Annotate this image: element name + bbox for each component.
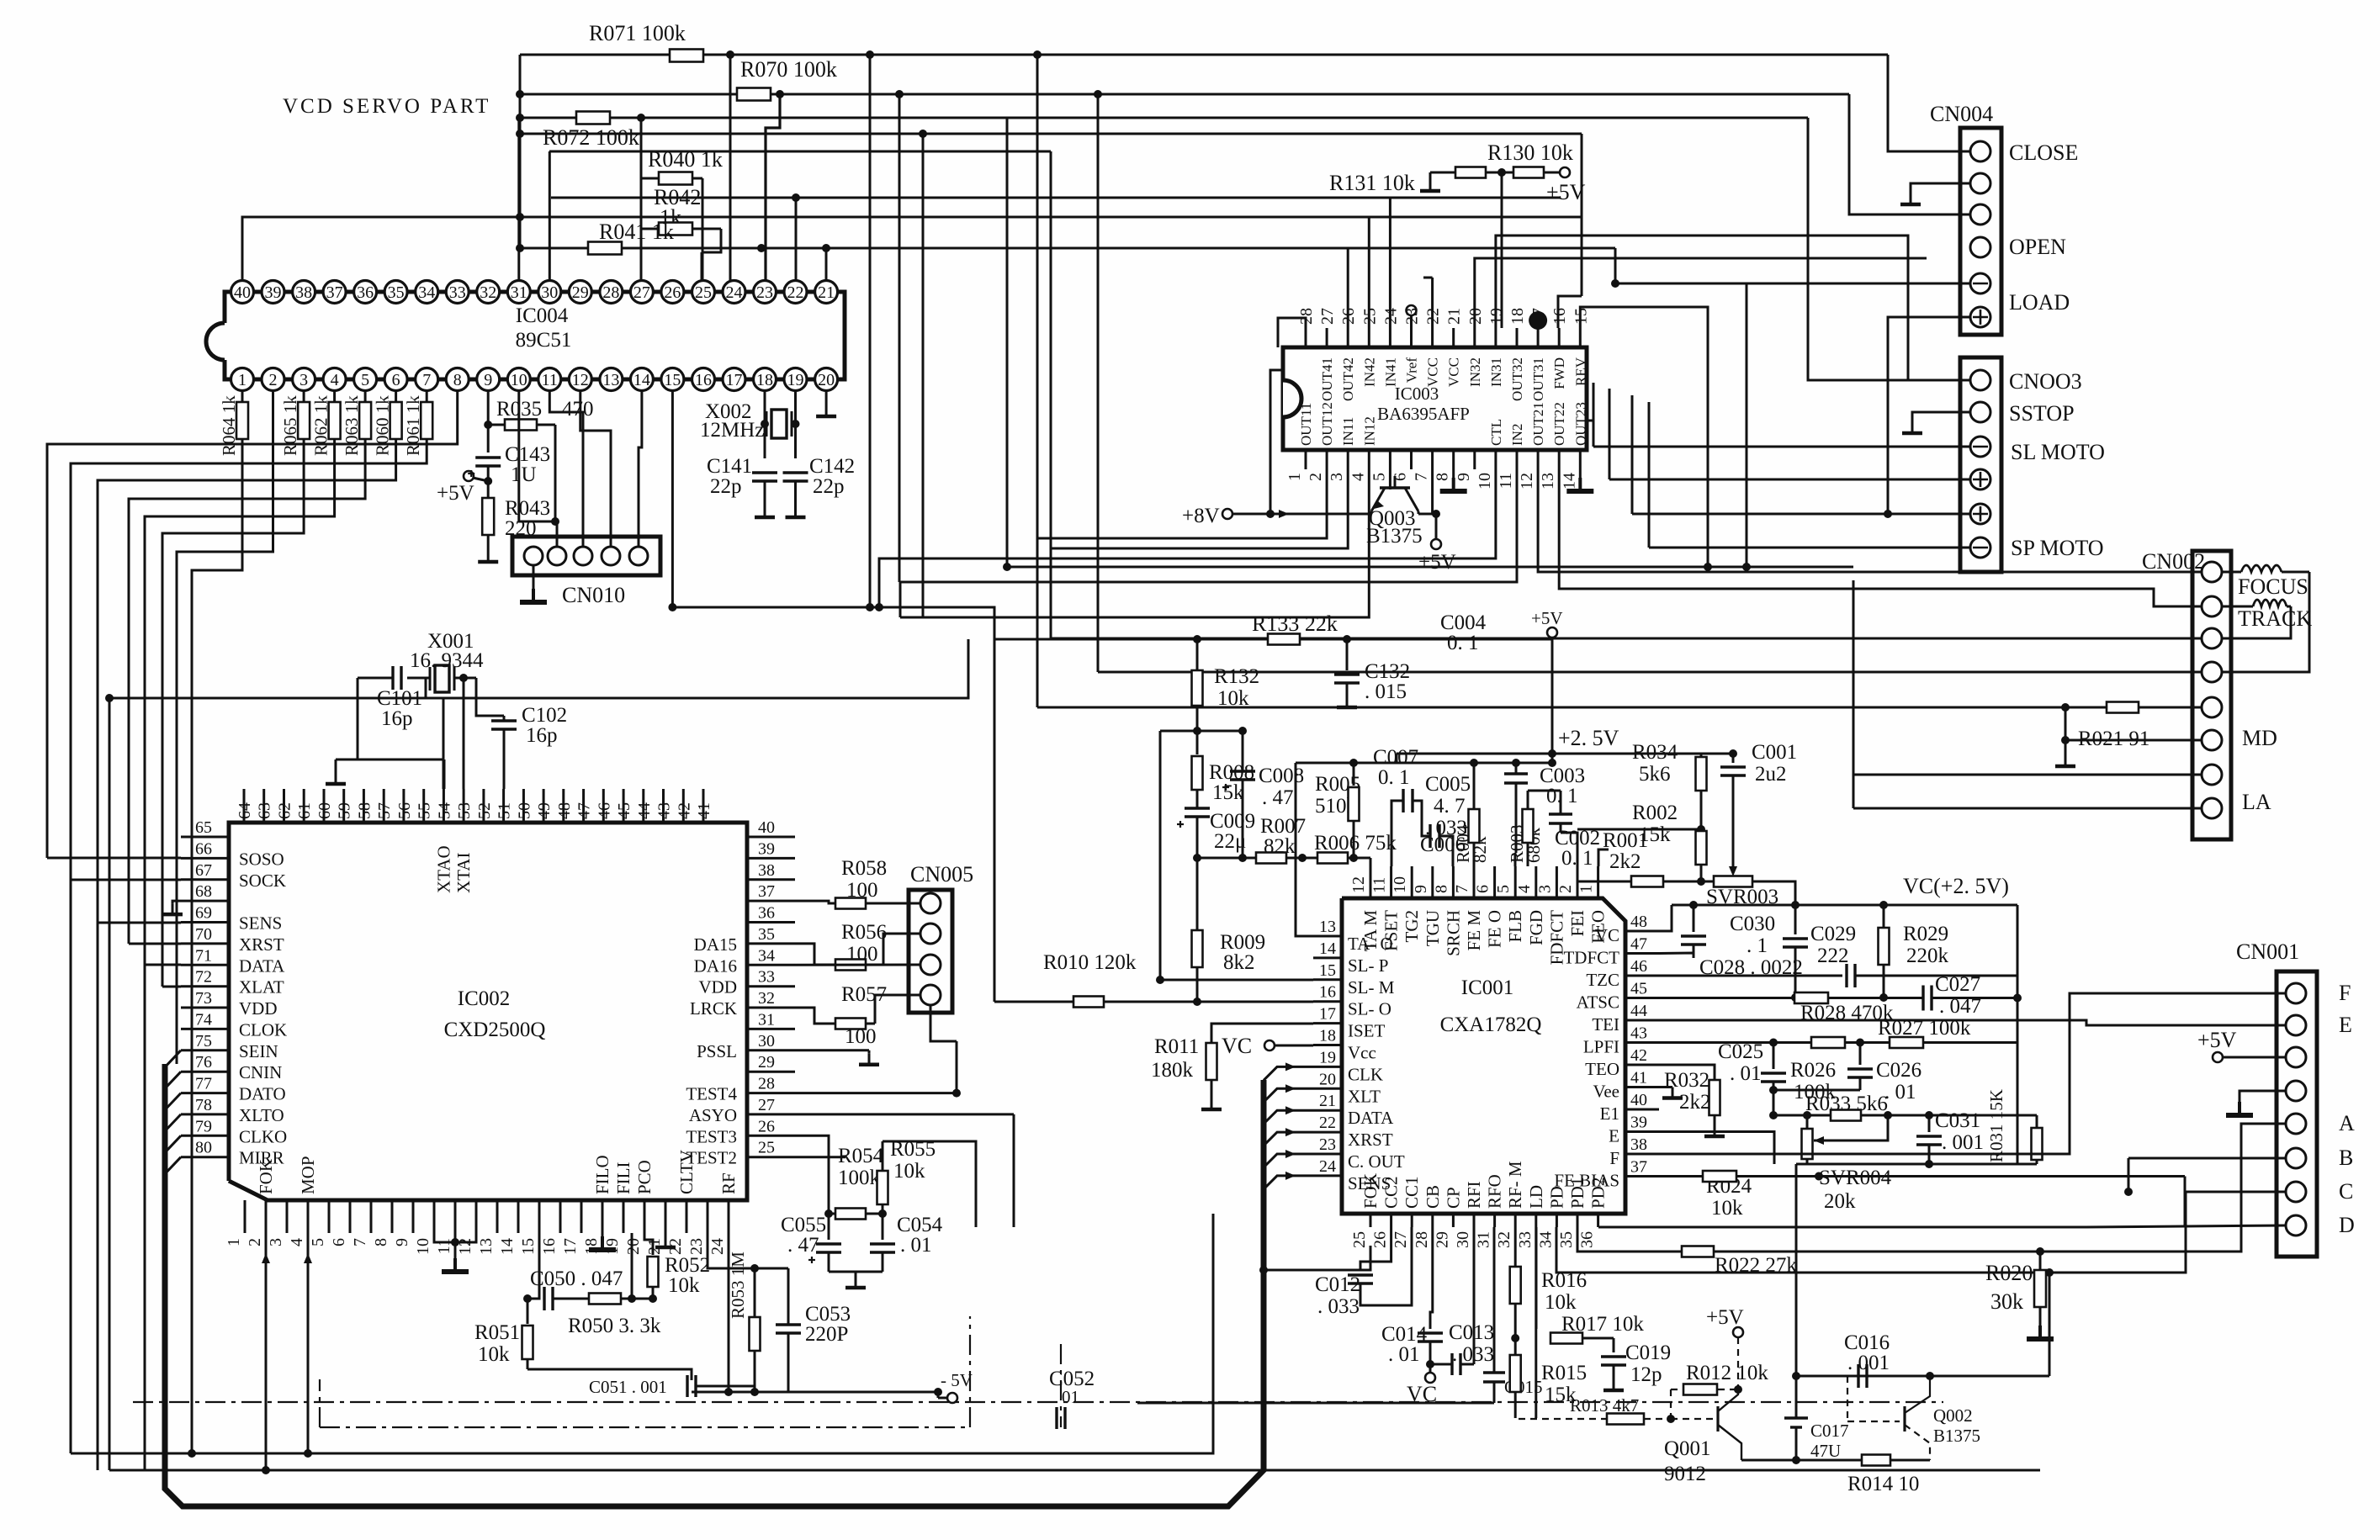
- wire IC004 pin30 riser to rail y=180: [549, 151, 551, 280]
- svg-text:78: 78: [195, 1096, 212, 1114]
- svg-text:XLTO: XLTO: [239, 1105, 284, 1125]
- inductor FOCUS coil: [2241, 565, 2282, 572]
- IC IC003 BA6395AFP body: [1283, 347, 1587, 450]
- wire vertical riser x=1069 from R070 rail down: [895, 90, 904, 98]
- svg-text:32: 32: [758, 989, 775, 1008]
- svg-text:LRCK: LRCK: [690, 998, 737, 1019]
- svg-text:RFI: RFI: [1464, 1181, 1484, 1209]
- svg-text:C. OUT: C. OUT: [1348, 1151, 1405, 1172]
- svg-text:CC2: CC2: [1381, 1176, 1402, 1209]
- svg-text:SL- P: SL- P: [1348, 955, 1388, 976]
- svg-text:R002: R002: [1632, 802, 1678, 824]
- wire ASYO pin27 right to x=1205: [795, 1113, 1014, 1115]
- wire CN003 plus1 long left: [1609, 479, 1969, 481]
- svg-text:27: 27: [1391, 1231, 1410, 1248]
- svg-text:SL- O: SL- O: [1348, 999, 1391, 1019]
- IC IC002 CXD2500Q body: [229, 823, 747, 1200]
- svg-text:R070 100k: R070 100k: [740, 57, 837, 82]
- wire staircase to x=193: [162, 439, 304, 987]
- svg-text:27: 27: [758, 1096, 775, 1114]
- svg-text:7: 7: [1453, 885, 1471, 893]
- wire C006 to pin10 column: [1413, 801, 1430, 836]
- svg-text:IN12: IN12: [1361, 416, 1377, 446]
- svg-text:SP MOTO: SP MOTO: [2011, 536, 2104, 560]
- wire rail riser x=1233 from y=65 rail down: [1033, 50, 1042, 59]
- svg-text:OPEN: OPEN: [2009, 235, 2066, 259]
- svg-text:IN41: IN41: [1382, 357, 1398, 387]
- svg-text:1: 1: [1577, 885, 1596, 893]
- svg-text:3: 3: [267, 1238, 285, 1246]
- svg-text:19: 19: [787, 371, 804, 389]
- svg-text:C008: C008: [1259, 765, 1304, 787]
- capacitor C054 .01: [882, 1214, 884, 1240]
- svg-text:49: 49: [535, 802, 554, 819]
- svg-text:29: 29: [572, 283, 589, 302]
- wire rail riser x=1182 from y=760 to R010: [994, 639, 996, 1002]
- svg-text:CC1: CC1: [1402, 1176, 1422, 1209]
- CN004 minus pin: [1970, 273, 1990, 294]
- wire bottom long rail y=1728: [71, 1214, 1213, 1453]
- svg-text:36: 36: [357, 283, 374, 302]
- wire IC003 pin22 riser: [1431, 278, 1434, 328]
- wire IC003 FWD pin16 wrap: [1557, 296, 1560, 328]
- CN003 plus pins: [1970, 469, 1990, 490]
- svg-text:E: E: [2339, 1013, 2352, 1037]
- svg-text:REV: REV: [1572, 357, 1588, 386]
- wire CN004 plus pin from below: [1888, 317, 1970, 514]
- svg-text:R009: R009: [1220, 931, 1265, 954]
- svg-text:IN2: IN2: [1509, 424, 1525, 446]
- svg-text:SSTOP: SSTOP: [2009, 401, 2075, 426]
- svg-text:67: 67: [195, 861, 212, 880]
- svg-text:FOK: FOK: [1360, 1173, 1381, 1209]
- ground wire CN004 pin2: [1911, 183, 1970, 193]
- svg-text:4: 4: [1349, 473, 1367, 481]
- svg-text:C141: C141: [707, 455, 752, 478]
- riser x=1894 to SL rail: [1593, 383, 1595, 447]
- svg-text:2u2: 2u2: [1755, 763, 1787, 786]
- svg-text:79: 79: [195, 1117, 212, 1135]
- svg-text:34: 34: [1536, 1231, 1555, 1248]
- svg-text:R034: R034: [1632, 741, 1678, 764]
- svg-text:ISET: ISET: [1348, 1021, 1386, 1041]
- svg-text:1: 1: [225, 1238, 243, 1246]
- wire bus to IC002 SOCK: [71, 879, 181, 881]
- wire TEST3 pin26 to R054 node: [795, 1135, 829, 1214]
- svg-text:PCO: PCO: [634, 1160, 655, 1194]
- svg-text:40: 40: [758, 818, 775, 837]
- svg-text:C101: C101: [377, 687, 422, 710]
- svg-text:VC(+2. 5V): VC(+2. 5V): [1903, 874, 2009, 898]
- svg-text:65: 65: [195, 818, 212, 837]
- IC001 right pin stubs 48-37: [1625, 930, 1659, 933]
- inductor TRACK coil: [2253, 600, 2287, 606]
- svg-text:FE O: FE O: [1485, 910, 1505, 948]
- svg-text:R058: R058: [841, 857, 887, 880]
- svg-text:DATA: DATA: [1348, 1108, 1394, 1128]
- wire FLB column to C003: [1515, 852, 1516, 855]
- svg-text:20: 20: [818, 371, 835, 389]
- svg-text:35: 35: [388, 283, 405, 302]
- svg-text:17: 17: [726, 371, 743, 389]
- svg-text:C102: C102: [522, 704, 567, 727]
- svg-text:F: F: [1609, 1148, 1619, 1168]
- wire IC004 pin14 to CN010 pin5: [639, 391, 642, 547]
- svg-text:3: 3: [299, 371, 308, 389]
- svg-text:OUT31: OUT31: [1530, 357, 1546, 401]
- svg-text:180k: 180k: [1151, 1059, 1194, 1082]
- svg-text:FEI: FEI: [1567, 910, 1588, 937]
- ground IC002 pin18: [602, 1233, 604, 1236]
- wire RFI pin30 down to C015: [1493, 1227, 1496, 1373]
- svg-text:24: 24: [726, 283, 743, 302]
- wire IC003 bottom pin10 CTL down: [879, 469, 1496, 597]
- svg-text:10: 10: [1476, 473, 1494, 490]
- ground below C054 C055: [829, 1271, 883, 1273]
- svg-text:39: 39: [1630, 1114, 1647, 1132]
- wire crystal right leg to IC002 pin53: [463, 678, 465, 789]
- svg-text:R014 10: R014 10: [1847, 1473, 1919, 1495]
- wire ground rail to IC002 pin56: [423, 759, 444, 761]
- svg-text:FILI: FILI: [613, 1162, 633, 1195]
- svg-text:13: 13: [477, 1238, 496, 1255]
- wire box rail y=159 down right side x=1880: [516, 130, 524, 138]
- svg-text:29: 29: [1433, 1231, 1451, 1248]
- wire IC003 pin5 down to base: [1389, 469, 1391, 490]
- svg-text:CN005: CN005: [910, 862, 973, 886]
- svg-text:36: 36: [1578, 1231, 1597, 1248]
- svg-text:. 01: . 01: [1388, 1343, 1420, 1366]
- wire CN001 B from C column: [2128, 1157, 2286, 1160]
- wire R051 bottom to C051 node: [527, 1369, 692, 1380]
- svg-text:CLK: CLK: [1348, 1064, 1383, 1084]
- svg-text:RF: RF: [718, 1172, 739, 1194]
- wire frame left vertical x=1379: [1159, 731, 1162, 980]
- wire staircase to x=210: [177, 391, 273, 1064]
- svg-text:1U: 1U: [511, 463, 537, 486]
- svg-text:0. 1: 0. 1: [1378, 766, 1410, 789]
- svg-text:. 015: . 015: [1365, 680, 1407, 703]
- wire C101 left leg down to ground rail: [358, 678, 423, 759]
- svg-text:SEIN: SEIN: [239, 1041, 278, 1061]
- svg-text:46: 46: [1630, 957, 1647, 976]
- svg-text:R031 15K: R031 15K: [1986, 1089, 2006, 1162]
- svg-text:44: 44: [635, 802, 654, 819]
- svg-text:CN001: CN001: [2236, 939, 2299, 964]
- svg-text:44: 44: [1630, 1002, 1647, 1020]
- ground at IC004 pin 20: [825, 391, 828, 405]
- wire R072 rail riser down x=1197: [1006, 118, 1009, 567]
- svg-text:IC001: IC001: [1461, 976, 1514, 999]
- IC001 top pin stubs 12-1: [1370, 866, 1372, 898]
- svg-text:C026: C026: [1876, 1059, 1921, 1082]
- svg-text:57: 57: [375, 802, 394, 819]
- wire R002 top junction left: [1577, 828, 1701, 831]
- svg-text:8: 8: [1434, 473, 1452, 481]
- svg-text:+5V: +5V: [1418, 551, 1456, 574]
- svg-text:72: 72: [195, 968, 212, 987]
- wire dash-dot board edge segment y=1697: [320, 1426, 970, 1428]
- svg-text:CLOSE: CLOSE: [2009, 140, 2078, 165]
- IC001 bottom pin stubs 25-36: [1370, 1214, 1372, 1227]
- svg-text:BA6395AFP: BA6395AFP: [1377, 404, 1470, 424]
- svg-text:XLAT: XLAT: [239, 977, 284, 998]
- SVR004 wiper arm: [1814, 1115, 1888, 1140]
- svg-text:C031: C031: [1935, 1109, 1980, 1132]
- wire mid rail y=722: [672, 607, 994, 639]
- resistor R064 1k below IC004 pin: [241, 391, 244, 402]
- svg-text:C: C: [2339, 1179, 2353, 1204]
- wire mid rail y=674 long: [1007, 566, 1853, 569]
- svg-text:RF- M: RF- M: [1505, 1161, 1525, 1209]
- wire IC002 pin2 FOK down to bottom rail: [265, 1233, 268, 1470]
- svg-text:OUT42: OUT42: [1340, 357, 1356, 401]
- svg-text:FE M: FE M: [1464, 910, 1484, 951]
- svg-text:31: 31: [1475, 1231, 1493, 1248]
- svg-text:Vcc: Vcc: [1348, 1043, 1376, 1063]
- svg-text:14: 14: [633, 371, 650, 389]
- svg-text:77: 77: [195, 1075, 212, 1093]
- CN001 pin circles: [2286, 983, 2306, 1003]
- wire IC003 pin20 riser long: [1475, 258, 1927, 328]
- svg-text:VCD SERVO PART: VCD SERVO PART: [283, 95, 490, 118]
- wire rail riser x=1305 from y=112 rail down: [1094, 90, 1102, 98]
- svg-text:DATO: DATO: [239, 1084, 286, 1104]
- wire SVR003 right end to rail: [1752, 881, 1795, 905]
- wire CN002 pin7 from left y=921: [1853, 774, 2202, 776]
- svg-text:73: 73: [195, 989, 212, 1008]
- IC002 top pin stubs 64-41: [243, 789, 246, 823]
- svg-text:C016: C016: [1844, 1331, 1890, 1354]
- wire IC004 pin40 up and right to top net: [242, 217, 520, 280]
- svg-text:12p: 12p: [1630, 1363, 1662, 1386]
- svg-text:SL- M: SL- M: [1348, 977, 1395, 998]
- svg-text:IC004: IC004: [516, 304, 569, 327]
- svg-text:18: 18: [1319, 1027, 1336, 1045]
- svg-text:24: 24: [1319, 1157, 1336, 1176]
- svg-text:FOCUS: FOCUS: [2238, 574, 2308, 599]
- wire IC003 pin26 riser: [1347, 248, 1349, 328]
- svg-text:SOCK: SOCK: [239, 871, 286, 891]
- connector CN003: [1960, 357, 2001, 572]
- IC002 bottom pin stubs 1-24: [244, 1200, 246, 1233]
- wire R070 rail to CN004 pin3: [1849, 94, 1969, 214]
- svg-text:16: 16: [540, 1238, 559, 1255]
- svg-text:27: 27: [1318, 308, 1337, 325]
- svg-text:12: 12: [572, 371, 589, 389]
- svg-text:89C51: 89C51: [516, 329, 572, 352]
- svg-text:XTAI: XTAI: [453, 853, 474, 893]
- svg-text:R050 3. 3k: R050 3. 3k: [568, 1315, 661, 1337]
- svg-text:56: 56: [395, 802, 414, 819]
- VC terminal below C014: [1429, 1364, 1432, 1373]
- wire C026 bottom to C025 column: [1773, 1089, 1860, 1092]
- svg-text:14: 14: [1319, 939, 1336, 958]
- svg-text:R001: R001: [1603, 829, 1648, 852]
- wire IC003 pin25 riser: [1368, 217, 1370, 328]
- +5V terminal above Q001: [1733, 1327, 1743, 1337]
- svg-text:22p: 22p: [710, 475, 742, 498]
- svg-text:A: A: [2339, 1111, 2355, 1135]
- svg-text:TEO: TEO: [1585, 1059, 1619, 1079]
- svg-text:9012: 9012: [1664, 1463, 1706, 1485]
- svg-text:26: 26: [1371, 1231, 1390, 1248]
- svg-text:6: 6: [1474, 885, 1492, 893]
- wire CN005 pin4 down to TEST rail: [930, 1005, 957, 1041]
- svg-text:OUT41: OUT41: [1319, 357, 1335, 401]
- wire CN003 plus2 long left: [1632, 513, 1969, 516]
- connector CN004: [1960, 128, 2001, 335]
- svg-text:80: 80: [195, 1139, 212, 1157]
- riser to IC001 pin48 VC: [1659, 905, 1672, 931]
- svg-text:. 001: . 001: [1847, 1352, 1890, 1374]
- wire TEI pin44 long to CN001 E: [1659, 1020, 2286, 1025]
- riser x=1913 to plus rail: [1609, 389, 1611, 479]
- svg-text:18: 18: [1508, 308, 1527, 325]
- svg-text:CLTV: CLTV: [676, 1150, 697, 1194]
- svg-text:CB: CB: [1423, 1185, 1443, 1209]
- svg-text:R043: R043: [505, 497, 550, 520]
- svg-text:R133 22k: R133 22k: [1252, 611, 1338, 636]
- resistor R060 1k below IC004 pin: [395, 391, 397, 402]
- svg-text:. 033: . 033: [1317, 1295, 1360, 1318]
- wire riser x=2203 for pins 7-8: [1853, 775, 1855, 808]
- svg-text:R056: R056: [841, 921, 887, 944]
- svg-text:R062 1k: R062 1k: [311, 395, 331, 456]
- svg-text:47: 47: [1630, 935, 1647, 954]
- svg-text:11: 11: [542, 371, 558, 389]
- wire CN003 SL MOTO long left: [1593, 446, 1969, 448]
- svg-text:TEI: TEI: [1592, 1014, 1619, 1035]
- wire LD pin33 down long: [1535, 1227, 1538, 1329]
- svg-text:CNOO3: CNOO3: [2009, 369, 2082, 394]
- wire IC003 pin4 down left rail: [900, 469, 1369, 617]
- svg-text:9: 9: [484, 371, 492, 389]
- wire +8V to transistor/IC003 pin1 loop: [1232, 513, 1371, 516]
- svg-text:IN11: IN11: [1340, 417, 1356, 446]
- vertical top net x=618: [519, 55, 522, 248]
- svg-text:R012 10k: R012 10k: [1686, 1362, 1768, 1384]
- wire IC003 pin12 OUT21 down and right: [1538, 469, 2202, 572]
- svg-text:+5V: +5V: [2197, 1028, 2237, 1052]
- wire TRACK loop to CN002 pin3: [2222, 606, 2291, 638]
- svg-text:R061 1k: R061 1k: [403, 395, 423, 456]
- wire crystal left leg to IC002 pin54: [426, 678, 443, 789]
- svg-text:4: 4: [331, 371, 339, 389]
- wire IC003 pin19 riser: [1496, 235, 1908, 380]
- wire C003 column from FLB pin5: [1515, 782, 1518, 785]
- wire F pin38 long right up to CN001 F: [1659, 993, 2286, 1154]
- svg-text:9: 9: [393, 1238, 411, 1246]
- svg-text:30k: 30k: [1990, 1289, 2023, 1314]
- CN003 circle pins: [1970, 370, 1990, 390]
- wire x=1880 into IC003 pin16 area: [1558, 296, 1582, 328]
- svg-text:43: 43: [1630, 1024, 1647, 1043]
- wire Q002 base dashed to rail riser: [1847, 1421, 1900, 1422]
- CN010 pin circles: [524, 547, 543, 565]
- svg-text:0. 1: 0. 1: [1546, 785, 1578, 807]
- svg-text:10k: 10k: [478, 1343, 510, 1366]
- svg-text:14: 14: [498, 1238, 517, 1255]
- wire FOCUS loop to CN002 pin4: [2222, 572, 2309, 672]
- svg-text:XRST: XRST: [1348, 1130, 1393, 1150]
- svg-text:LA: LA: [2242, 790, 2271, 814]
- CN005 pin circles: [920, 893, 941, 913]
- wire PD pin34 to CN001 C: [1556, 1192, 2286, 1273]
- svg-text:SOSO: SOSO: [239, 849, 284, 869]
- svg-text:47U: 47U: [1810, 1441, 1841, 1461]
- ground wire CN003 pin2: [1912, 412, 1970, 422]
- connector CN001: [2277, 971, 2317, 1257]
- svg-text:R051: R051: [474, 1321, 520, 1344]
- wire IC003 pin1 loop from +8V: [1270, 370, 1283, 514]
- svg-text:. 47: . 47: [787, 1234, 819, 1257]
- svg-text:TRACK: TRACK: [2238, 606, 2312, 631]
- svg-text:13: 13: [1539, 473, 1557, 490]
- wire Q003 right leg to +5V node: [1418, 511, 1420, 514]
- svg-text:10k: 10k: [1545, 1291, 1577, 1314]
- svg-text:D: D: [2339, 1213, 2355, 1237]
- svg-text:10: 10: [1391, 876, 1409, 893]
- svg-text:21: 21: [818, 283, 835, 302]
- svg-text:71: 71: [195, 946, 212, 965]
- svg-text:SRCH: SRCH: [1443, 910, 1463, 956]
- wire +2.5V rail left drop to C003 area: [1396, 754, 1398, 763]
- svg-text:24: 24: [708, 1238, 727, 1255]
- svg-text:41: 41: [695, 802, 713, 819]
- svg-text:10k: 10k: [893, 1160, 925, 1183]
- wire staircase to x=56: [47, 391, 458, 858]
- svg-text:46: 46: [595, 802, 613, 819]
- svg-text:IN32: IN32: [1467, 357, 1483, 387]
- svg-text:61: 61: [295, 802, 314, 819]
- wire RF rail left: [692, 1391, 755, 1394]
- svg-text:23: 23: [1319, 1135, 1336, 1154]
- capacitor C101 16p: [391, 666, 394, 690]
- svg-text:TEST4: TEST4: [686, 1084, 737, 1104]
- svg-text:220P: 220P: [805, 1323, 848, 1346]
- wire dash-dot board edge y=1667: [133, 1401, 1943, 1403]
- svg-text:41: 41: [1630, 1069, 1647, 1088]
- svg-text:VCC: VCC: [1425, 357, 1441, 387]
- svg-text:220k: 220k: [1906, 945, 1949, 967]
- wire IC003 pin3 down left: [1051, 469, 1348, 548]
- svg-text:33: 33: [758, 968, 775, 987]
- svg-text:20: 20: [1319, 1070, 1336, 1088]
- svg-text:CXD2500Q: CXD2500Q: [444, 1019, 546, 1041]
- svg-text:100k: 100k: [838, 1167, 881, 1189]
- svg-text:10k: 10k: [1711, 1197, 1743, 1220]
- svg-text:10: 10: [511, 371, 527, 389]
- ground at CN010 pin1: [533, 565, 535, 589]
- IC IC004 89C51 DIP-40 body: [225, 292, 242, 323]
- wire FE BIAS right down join: [2184, 1177, 2187, 1228]
- svg-text:3: 3: [1328, 473, 1346, 481]
- svg-text:CN002: CN002: [2142, 549, 2205, 574]
- svg-text:222: 222: [1817, 945, 1849, 967]
- svg-text:40: 40: [1630, 1091, 1647, 1109]
- wire R072 junction to IC004 pin27: [640, 118, 643, 280]
- svg-text:66: 66: [195, 839, 212, 858]
- wire rail y=180 long: [549, 151, 1051, 153]
- wire R012 left dashed down to base net: [1670, 1389, 1672, 1419]
- wire C143 bottom to +5V node: [487, 466, 490, 481]
- svg-text:25: 25: [695, 283, 712, 302]
- svg-text:25: 25: [758, 1139, 775, 1157]
- resistor R035 470: [488, 424, 505, 426]
- capacitor C053 220P: [755, 1267, 788, 1270]
- svg-text:70: 70: [195, 925, 212, 944]
